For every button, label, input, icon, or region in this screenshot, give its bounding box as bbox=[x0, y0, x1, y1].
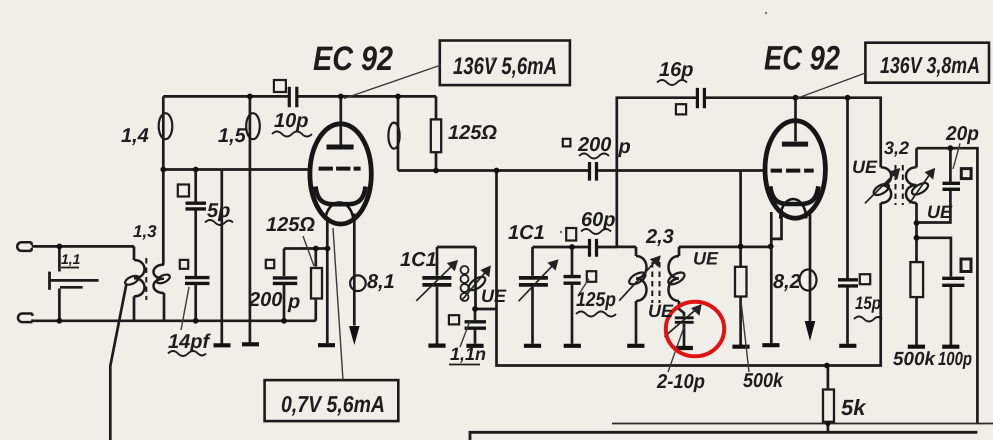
svg-text:UE: UE bbox=[927, 202, 953, 222]
svg-text:3,2: 3,2 bbox=[884, 138, 909, 158]
svg-text:8,2: 8,2 bbox=[773, 271, 801, 293]
svg-text:2-10p: 2-10p bbox=[656, 371, 705, 393]
svg-text:500k: 500k bbox=[743, 370, 784, 392]
svg-text:125Ω: 125Ω bbox=[266, 214, 315, 236]
svg-text:8,1: 8,1 bbox=[367, 271, 395, 293]
svg-text:15p: 15p bbox=[855, 293, 881, 313]
svg-text:5p: 5p bbox=[207, 200, 230, 222]
svg-text:EC 92: EC 92 bbox=[313, 40, 393, 78]
svg-text:136V 3,8mA: 136V 3,8mA bbox=[880, 52, 980, 78]
svg-text:EC 92: EC 92 bbox=[764, 40, 840, 78]
svg-text:UE: UE bbox=[481, 286, 507, 306]
svg-text:1C1: 1C1 bbox=[400, 249, 437, 271]
svg-text:p: p bbox=[287, 291, 300, 313]
svg-text:100p: 100p bbox=[938, 349, 972, 370]
svg-text:0,7V 5,6mA: 0,7V 5,6mA bbox=[281, 391, 385, 417]
svg-text:1,3: 1,3 bbox=[133, 222, 157, 241]
svg-text:1,1n: 1,1n bbox=[450, 344, 486, 364]
svg-text:1,1: 1,1 bbox=[61, 251, 81, 267]
svg-text:5k: 5k bbox=[841, 395, 867, 420]
svg-text:14pf: 14pf bbox=[168, 331, 211, 353]
svg-text:125Ω: 125Ω bbox=[448, 122, 497, 144]
svg-text:10p: 10p bbox=[274, 110, 308, 132]
svg-text:1,5: 1,5 bbox=[218, 125, 247, 147]
svg-text:2,3: 2,3 bbox=[645, 226, 674, 248]
svg-text:500k: 500k bbox=[893, 349, 936, 370]
svg-text:125p: 125p bbox=[576, 289, 616, 311]
svg-text:16p: 16p bbox=[659, 59, 693, 81]
svg-text:1C1: 1C1 bbox=[508, 222, 545, 244]
svg-text:UE: UE bbox=[852, 157, 878, 177]
svg-text:136V 5,6mA: 136V 5,6mA bbox=[453, 53, 557, 80]
svg-text:p: p bbox=[618, 136, 631, 158]
svg-text:200: 200 bbox=[577, 134, 611, 156]
svg-text:20p: 20p bbox=[945, 123, 979, 145]
svg-text:60p: 60p bbox=[581, 209, 615, 231]
svg-text:200: 200 bbox=[248, 289, 282, 311]
svg-text:UE: UE bbox=[693, 249, 719, 269]
svg-text:1,4: 1,4 bbox=[121, 125, 149, 147]
svg-text:UE: UE bbox=[648, 301, 674, 321]
